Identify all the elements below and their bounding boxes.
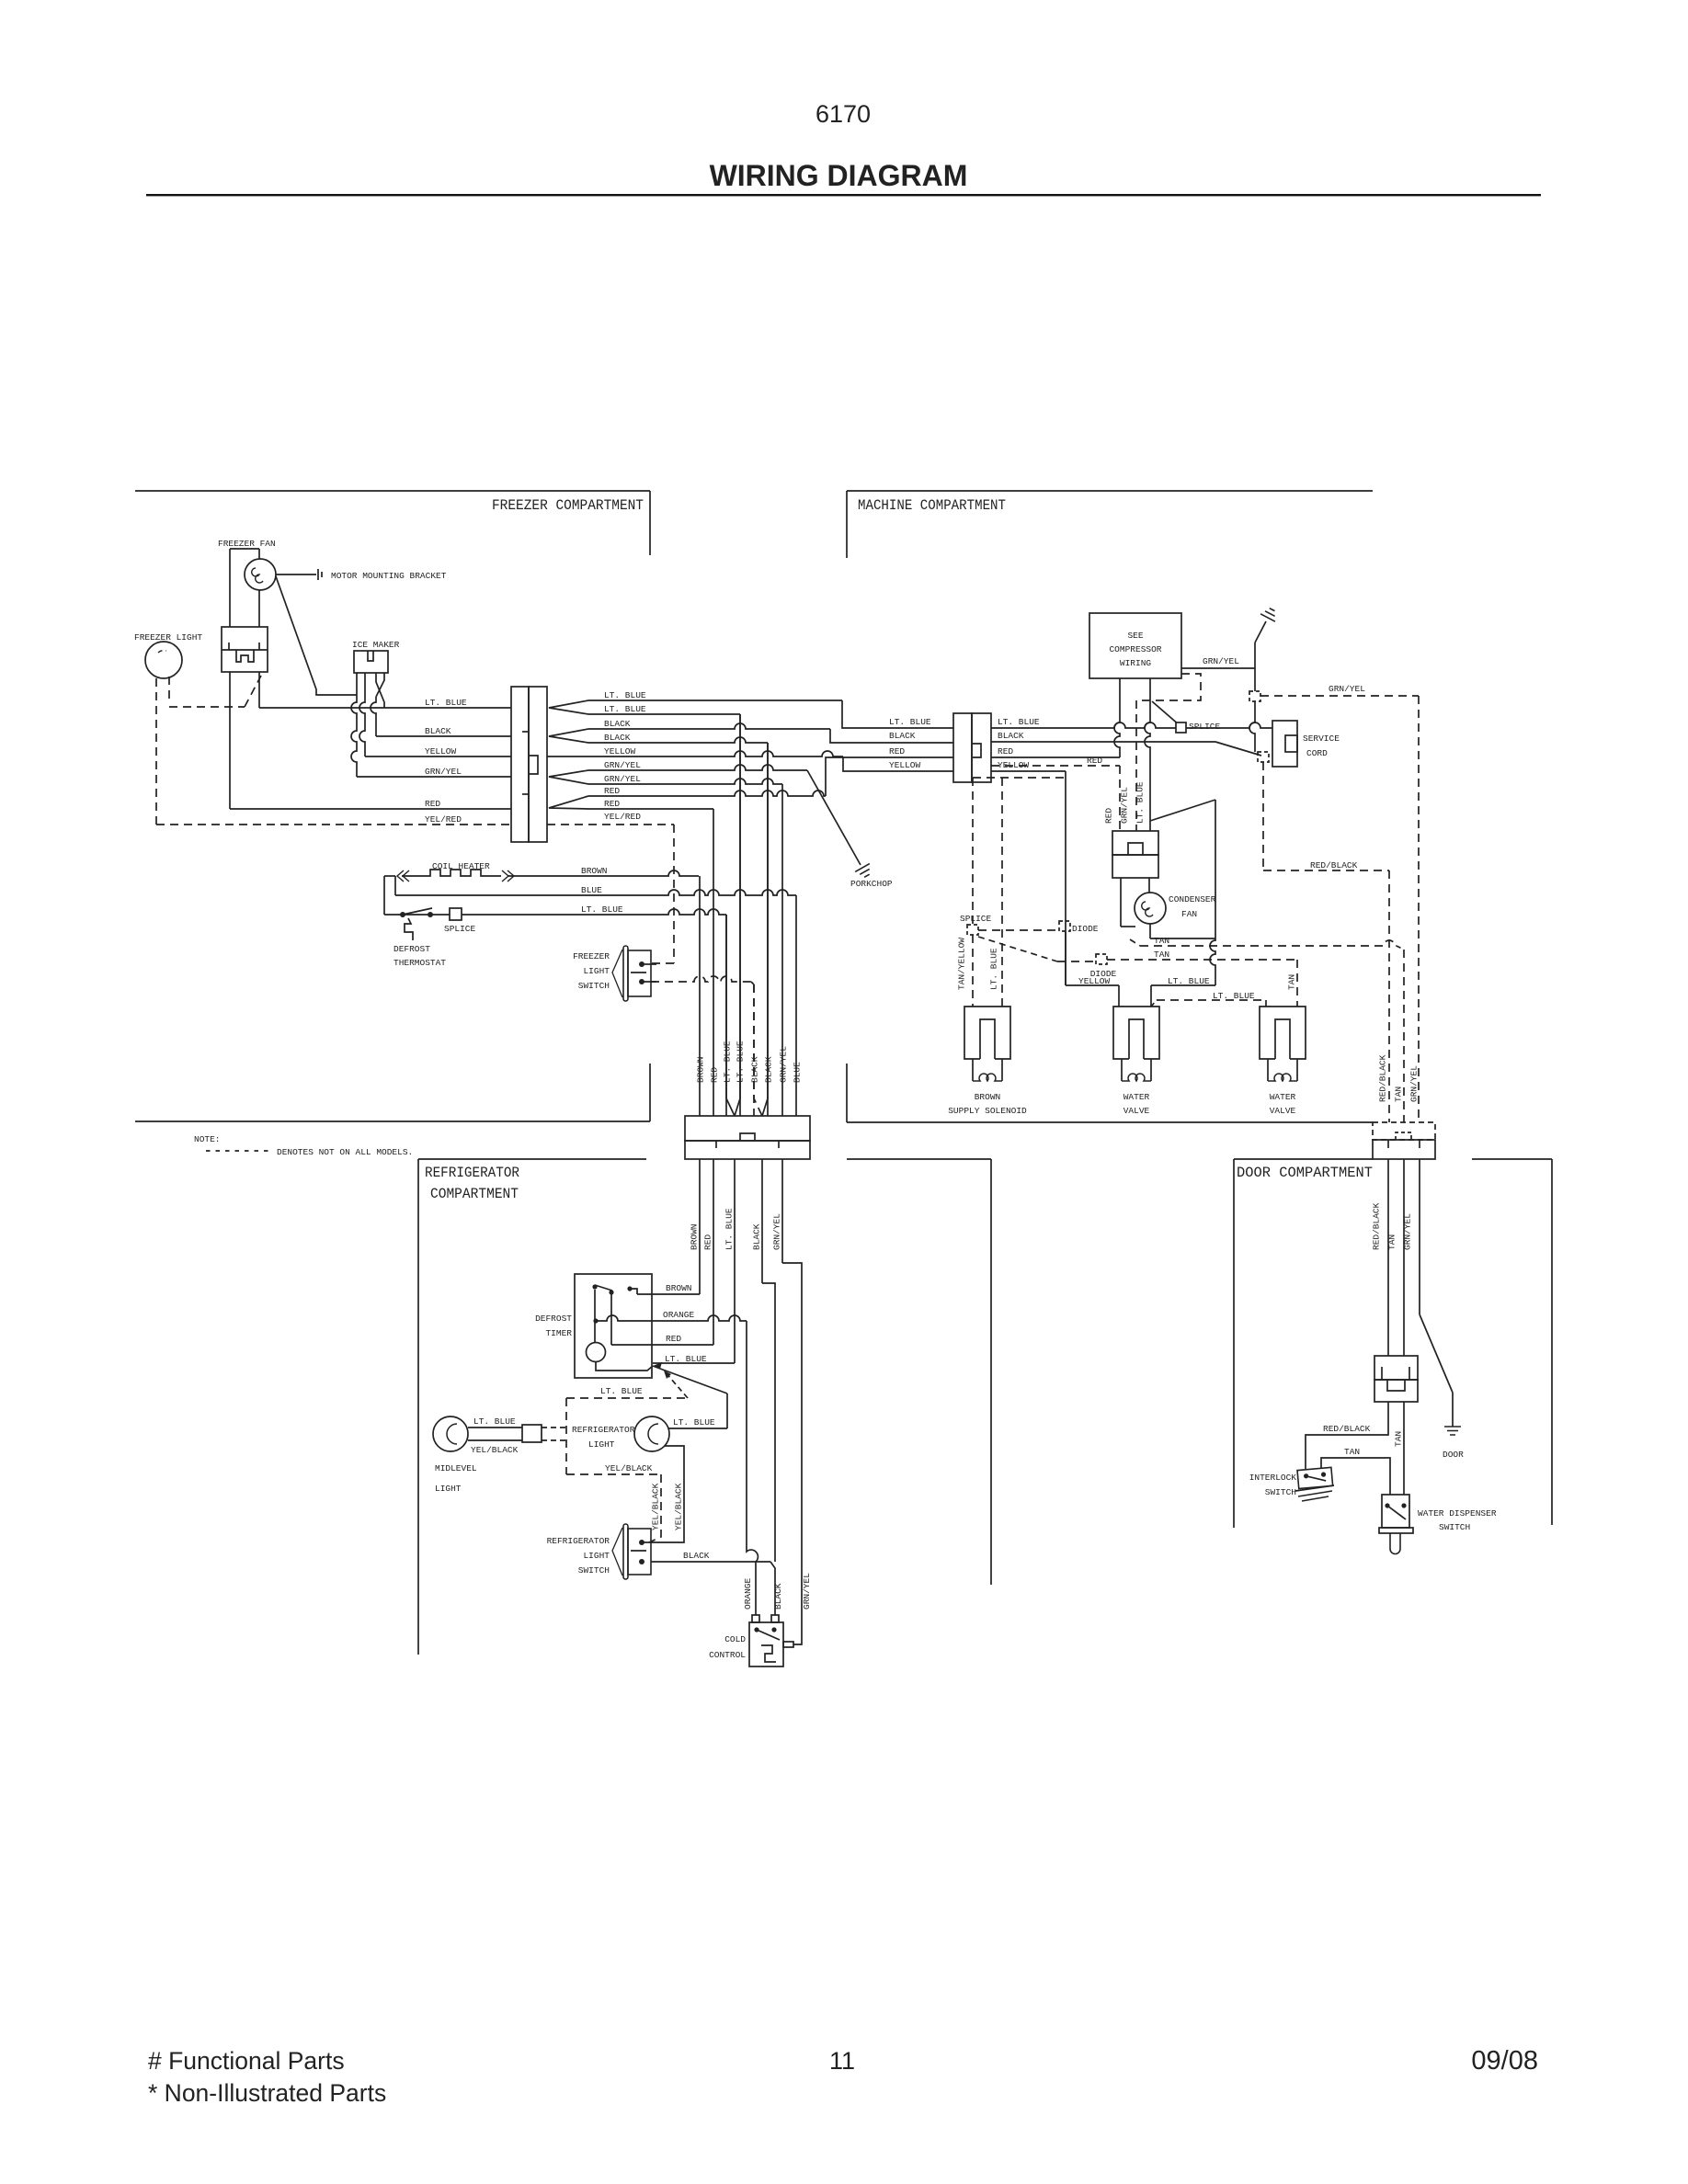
svg-text:BLACK: BLACK [604, 733, 631, 743]
svg-text:LT. BLUE: LT. BLUE [998, 717, 1040, 727]
svg-text:BROWN: BROWN [581, 866, 608, 876]
svg-text:CONTROL: CONTROL [709, 1650, 746, 1660]
svg-text:TAN: TAN [1154, 950, 1169, 960]
svg-text:FREEZER COMPARTMENT: FREEZER COMPARTMENT [492, 497, 644, 514]
svg-text:COMPRESSOR: COMPRESSOR [1109, 644, 1161, 654]
svg-text:PORKCHOP: PORKCHOP [850, 879, 893, 889]
svg-text:DIODE: DIODE [1072, 924, 1099, 934]
svg-text:LT. BLUE: LT. BLUE [604, 704, 646, 714]
svg-text:BROWN: BROWN [666, 1283, 692, 1293]
svg-text:SWITCH: SWITCH [1439, 1522, 1470, 1532]
svg-text:YEL/RED: YEL/RED [604, 812, 641, 822]
svg-text:ORANGE: ORANGE [743, 1577, 753, 1610]
svg-text:VALVE: VALVE [1270, 1106, 1296, 1116]
svg-text:BLACK: BLACK [752, 1223, 762, 1250]
svg-text:BLACK: BLACK [998, 731, 1024, 741]
svg-text:GRN/YEL: GRN/YEL [604, 774, 641, 784]
svg-text:RED/BLACK: RED/BLACK [1372, 1202, 1382, 1250]
svg-text:WIRING: WIRING [1120, 658, 1152, 668]
svg-text:MACHINE COMPARTMENT: MACHINE COMPARTMENT [858, 497, 1006, 514]
svg-text:GRN/YEL: GRN/YEL [1203, 656, 1239, 666]
svg-text:YELLOW: YELLOW [425, 746, 457, 756]
svg-text:TAN: TAN [1344, 1447, 1360, 1457]
svg-text:BROWN: BROWN [975, 1092, 1001, 1102]
svg-text:DEFROST: DEFROST [535, 1314, 572, 1324]
svg-text:LT. BLUE: LT. BLUE [724, 1208, 735, 1250]
svg-text:TIMER: TIMER [545, 1328, 572, 1338]
svg-text:RED/BLACK: RED/BLACK [1323, 1424, 1371, 1434]
svg-text:RED: RED [666, 1334, 681, 1344]
svg-text:ORANGE: ORANGE [663, 1310, 695, 1320]
svg-text:TAN: TAN [1154, 936, 1169, 946]
svg-text:LIGHT: LIGHT [583, 966, 610, 976]
svg-text:REFRIGERATOR: REFRIGERATOR [425, 1165, 519, 1181]
svg-text:DEFROST: DEFROST [393, 944, 430, 954]
svg-text:LT. BLUE: LT. BLUE [604, 690, 646, 700]
svg-text:FREEZER FAN: FREEZER FAN [218, 539, 276, 549]
svg-text:INTERLOCK: INTERLOCK [1249, 1473, 1297, 1483]
svg-text:TAN: TAN [1287, 974, 1297, 990]
svg-text:GRN/YEL: GRN/YEL [1329, 684, 1365, 694]
svg-text:YEL/BLACK: YEL/BLACK [605, 1463, 653, 1473]
svg-text:WIRING DIAGRAM: WIRING DIAGRAM [710, 159, 968, 192]
svg-text:BLACK: BLACK [604, 719, 631, 729]
svg-text:TAN/YELLOW: TAN/YELLOW [957, 938, 967, 990]
svg-text:DOOR COMPARTMENT: DOOR COMPARTMENT [1237, 1165, 1373, 1181]
svg-text:# Functional Parts: # Functional Parts [148, 2047, 345, 2075]
svg-text:* Non-Illustrated Parts: * Non-Illustrated Parts [148, 2079, 386, 2107]
svg-text:TAN: TAN [1387, 1234, 1397, 1250]
svg-text:6170: 6170 [815, 100, 871, 128]
svg-text:RED: RED [425, 799, 440, 809]
svg-text:DENOTES NOT ON ALL MODELS.: DENOTES NOT ON ALL MODELS. [277, 1147, 413, 1157]
svg-text:YELLOW: YELLOW [604, 746, 636, 756]
svg-text:LT. BLUE: LT. BLUE [889, 717, 931, 727]
svg-text:LT. BLUE: LT. BLUE [581, 904, 623, 915]
svg-text:BLACK: BLACK [889, 731, 916, 741]
svg-text:SWITCH: SWITCH [578, 1565, 610, 1575]
svg-text:FREEZER LIGHT: FREEZER LIGHT [134, 632, 202, 643]
svg-text:BLUE: BLUE [581, 885, 602, 895]
svg-text:THERMOSTAT: THERMOSTAT [393, 958, 446, 968]
svg-text:BLACK: BLACK [750, 1056, 760, 1083]
svg-text:RED: RED [604, 786, 620, 796]
svg-text:SPLICE: SPLICE [1189, 722, 1221, 732]
svg-text:RED: RED [998, 746, 1013, 756]
svg-text:BROWN: BROWN [690, 1223, 700, 1250]
svg-text:LT. BLUE: LT. BLUE [673, 1417, 715, 1428]
svg-text:LT. BLUE: LT. BLUE [600, 1386, 643, 1396]
svg-text:LT. BLUE: LT. BLUE [723, 1041, 733, 1083]
svg-text:RED: RED [1104, 808, 1114, 824]
svg-text:YEL/BLACK: YEL/BLACK [471, 1445, 519, 1455]
svg-text:YELLOW: YELLOW [889, 760, 921, 770]
svg-text:RED/BLACK: RED/BLACK [1310, 860, 1358, 870]
svg-text:LT. BLUE: LT. BLUE [1213, 991, 1255, 1001]
svg-text:BROWN: BROWN [696, 1056, 706, 1083]
svg-text:DIODE: DIODE [1090, 969, 1117, 979]
svg-text:WATER: WATER [1123, 1092, 1150, 1102]
svg-text:RED: RED [703, 1234, 713, 1250]
svg-text:11: 11 [829, 2047, 855, 2075]
svg-text:SEE: SEE [1127, 631, 1143, 641]
svg-text:GRN/YEL: GRN/YEL [772, 1213, 782, 1250]
svg-text:RED: RED [1087, 756, 1102, 766]
svg-text:LIGHT: LIGHT [435, 1484, 462, 1494]
svg-text:SPLICE: SPLICE [960, 914, 992, 924]
svg-text:RED: RED [889, 746, 905, 756]
svg-text:RED/BLACK: RED/BLACK [1378, 1054, 1388, 1102]
svg-text:CORD: CORD [1306, 748, 1328, 758]
svg-text:FAN: FAN [1181, 909, 1197, 919]
svg-text:SUPPLY SOLENOID: SUPPLY SOLENOID [948, 1106, 1027, 1116]
svg-text:YEL/BLACK: YEL/BLACK [674, 1483, 684, 1530]
svg-text:YEL/RED: YEL/RED [425, 814, 462, 825]
svg-text:RED: RED [710, 1067, 720, 1083]
svg-text:REFRIGERATOR: REFRIGERATOR [547, 1536, 610, 1546]
svg-text:GRN/YEL: GRN/YEL [1120, 787, 1130, 824]
svg-text:LT. BLUE: LT. BLUE [736, 1041, 746, 1083]
svg-text:LT. BLUE: LT. BLUE [1168, 976, 1210, 986]
svg-text:GRN/YEL: GRN/YEL [779, 1046, 789, 1083]
svg-text:LT. BLUE: LT. BLUE [425, 698, 467, 708]
svg-text:WATER DISPENSER: WATER DISPENSER [1418, 1508, 1497, 1519]
svg-text:GRN/YEL: GRN/YEL [802, 1573, 812, 1610]
svg-text:YEL/BLACK: YEL/BLACK [651, 1483, 661, 1530]
svg-text:09/08: 09/08 [1471, 2046, 1538, 2076]
svg-text:SERVICE: SERVICE [1303, 734, 1340, 744]
svg-text:WATER: WATER [1270, 1092, 1296, 1102]
svg-text:GRN/YEL: GRN/YEL [1403, 1213, 1413, 1250]
svg-text:DOOR: DOOR [1443, 1450, 1464, 1460]
svg-text:GRN/YEL: GRN/YEL [1409, 1065, 1420, 1102]
svg-text:GRN/YEL: GRN/YEL [425, 767, 462, 777]
svg-text:LT. BLUE: LT. BLUE [473, 1416, 516, 1427]
svg-text:LIGHT: LIGHT [583, 1551, 610, 1561]
svg-text:SWITCH: SWITCH [1265, 1487, 1296, 1497]
svg-text:BLUE: BLUE [793, 1062, 803, 1083]
svg-text:REFRIGERATOR: REFRIGERATOR [572, 1425, 635, 1435]
svg-text:BLACK: BLACK [764, 1056, 774, 1083]
svg-text:LT. BLUE: LT. BLUE [989, 948, 999, 990]
svg-text:CONDENSER: CONDENSER [1169, 894, 1216, 904]
svg-text:LIGHT: LIGHT [588, 1439, 615, 1450]
svg-text:BLACK: BLACK [773, 1583, 783, 1610]
svg-text:LT. BLUE: LT. BLUE [1135, 781, 1146, 824]
svg-text:FREEZER: FREEZER [573, 951, 610, 961]
svg-text:TAN: TAN [1394, 1086, 1404, 1102]
svg-text:COMPARTMENT: COMPARTMENT [430, 1186, 519, 1202]
svg-text:SPLICE: SPLICE [444, 924, 476, 934]
svg-text:VALVE: VALVE [1123, 1106, 1150, 1116]
svg-text:MIDLEVEL: MIDLEVEL [435, 1463, 477, 1473]
svg-text:NOTE:: NOTE: [194, 1134, 221, 1144]
svg-text:RED: RED [604, 799, 620, 809]
svg-text:TAN: TAN [1394, 1431, 1404, 1447]
svg-text:BLACK: BLACK [683, 1551, 710, 1561]
svg-text:MOTOR MOUNTING BRACKET: MOTOR MOUNTING BRACKET [331, 571, 447, 581]
svg-text:SWITCH: SWITCH [578, 981, 610, 991]
svg-text:ICE MAKER: ICE MAKER [352, 640, 400, 650]
svg-text:GRN/YEL: GRN/YEL [604, 760, 641, 770]
svg-text:BLACK: BLACK [425, 726, 451, 736]
svg-text:COLD: COLD [724, 1634, 746, 1644]
